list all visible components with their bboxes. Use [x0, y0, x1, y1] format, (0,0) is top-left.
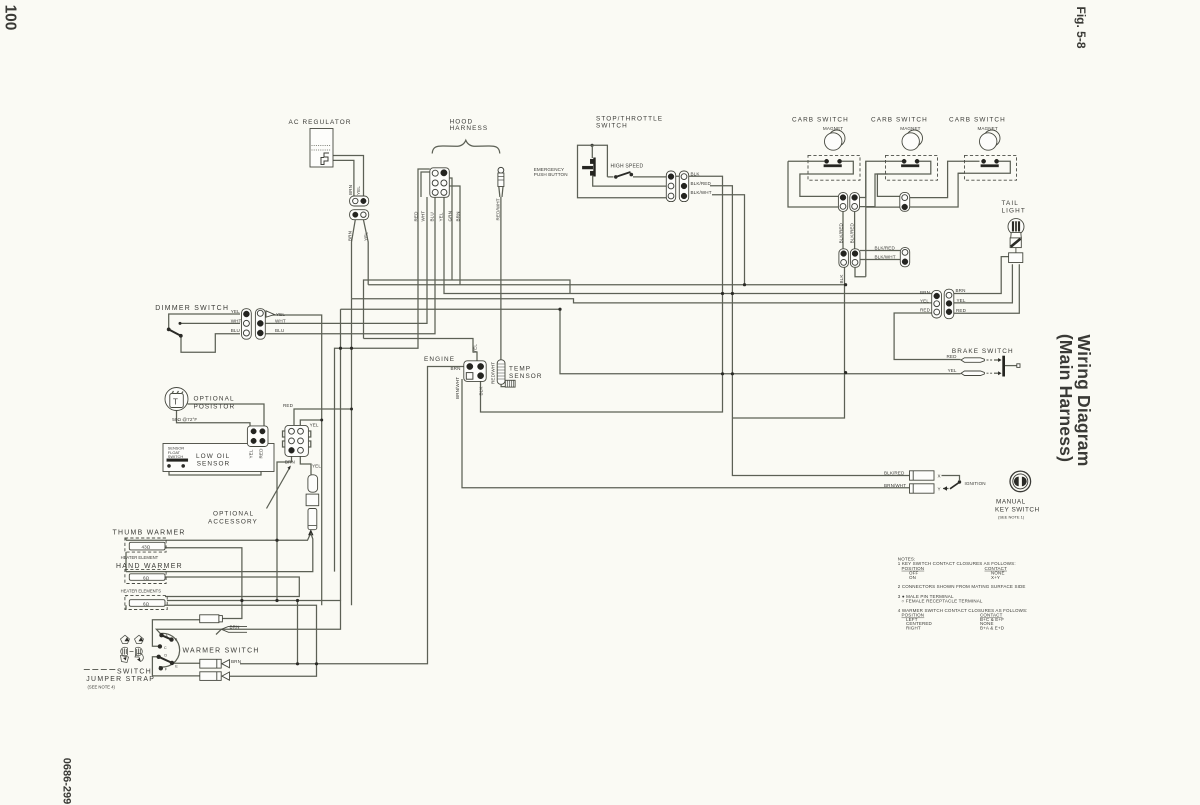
svg-text:THUMB WARMER: THUMB WARMER [113, 530, 186, 537]
stop/throttle switch S1 [534, 116, 667, 198]
wire tail light RED [954, 264, 1020, 313]
svg-text:(SEE NOTE 1): (SEE NOTE 1) [998, 514, 1025, 519]
svg-text:WHT: WHT [275, 318, 286, 323]
svg-text:HAND WARMER: HAND WARMER [116, 563, 183, 570]
svg-text:43Ω: 43Ω [142, 544, 151, 549]
connector accessory 6-pin [283, 425, 311, 456]
svg-text:BRN: BRN [231, 659, 241, 664]
svg-text:STOP/THROTTLE: STOP/THROTTLE [596, 116, 663, 123]
wire carb1 4pin to 2pin BLK/RED [860, 250, 900, 252]
wire bus yC: AC BRN across, down at 560, to brake switch YEL [352, 299, 932, 303]
connector tail 6-pin pair [932, 289, 954, 319]
switch jumper strap note [84, 668, 155, 689]
svg-text:YEL: YEL [364, 232, 369, 241]
wire thumb warmer return to terminal [165, 548, 242, 619]
svg-text:OPTIONAL: OPTIONAL [194, 396, 235, 403]
svg-text:BLK/WHT: BLK/WHT [691, 190, 712, 195]
connector posistor 4-pin [247, 426, 268, 447]
connector hood harness 6-pin [418, 168, 460, 198]
svg-text:YEL: YEL [957, 298, 966, 303]
connector dimmer 3-pin right [255, 309, 265, 340]
wire warmer BRN bus [156, 601, 340, 635]
svg-text:BLK: BLK [478, 386, 483, 396]
svg-text:DIMMER SWITCH: DIMMER SWITCH [155, 305, 229, 312]
svg-text:SWITCH: SWITCH [117, 668, 152, 675]
connector AC pair lower [350, 210, 369, 220]
wire fuse bottom right leg to hand warmer [126, 533, 313, 572]
optional accessory label with arrow [208, 466, 291, 526]
wire AC BRN lead below connector, tees into bus at y299 [352, 220, 356, 299]
svg-text:X: X [938, 473, 941, 478]
svg-text:BRN: BRN [456, 212, 461, 222]
svg-text:BLK: BLK [839, 274, 844, 284]
svg-text:B: B [175, 637, 178, 641]
svg-text:YEL: YEL [312, 463, 321, 468]
svg-text:BLK/RED: BLK/RED [849, 222, 854, 243]
svg-text:6Ω: 6Ω [143, 601, 150, 606]
svg-text:(Main Harness): (Main Harness) [1056, 334, 1076, 462]
connector carb2 2-pin [900, 192, 910, 211]
svg-text:RIGHT: RIGHT [906, 626, 921, 631]
svg-text:MANUAL: MANUAL [996, 499, 1026, 506]
svg-text:6Ω: 6Ω [143, 575, 150, 580]
svg-text:JUMPER STRAP: JUMPER STRAP [86, 676, 155, 683]
svg-text:RED/WHT: RED/WHT [495, 198, 500, 220]
svg-text:BRN: BRN [956, 288, 966, 293]
svg-text:BLU: BLU [430, 212, 435, 221]
wire low oil sensor outer lead [169, 444, 261, 475]
svg-text:WARMER SWITCH: WARMER SWITCH [183, 647, 260, 654]
svg-text:HARNESS: HARNESS [450, 125, 489, 132]
svg-text:BRAKE SWITCH: BRAKE SWITCH [952, 348, 1014, 355]
connector AC pair upper [350, 196, 369, 206]
svg-text:ACCESSORY: ACCESSORY [208, 519, 258, 526]
wire bus L2: AC YEL across to 6-pin connector YEL pin [368, 284, 845, 286]
svg-text:CARB SWITCH: CARB SWITCH [871, 117, 928, 124]
wire hood WHT down joining dimmer WHT [266, 197, 428, 323]
svg-text:BLK/RED: BLK/RED [838, 222, 843, 243]
svg-text:HIGH SPEED: HIGH SPEED [611, 164, 644, 170]
svg-text:0686-299: 0686-299 [61, 758, 73, 805]
svg-text:BLU: BLU [231, 328, 240, 333]
wire carb2 to carb3 top link [910, 161, 980, 197]
wire AC YEL lead below connector to bus y284.7 [363, 220, 368, 285]
wire hood YEL down joining bus L1 [444, 197, 932, 294]
wire engine BLK down right and up to stop switch BLK [481, 176, 723, 412]
wire carb1 to carb2 lower link [860, 174, 888, 207]
wire warmer switch D loop to terminal 2 [152, 657, 199, 676]
wire brake YEL feed from riser across and down [341, 309, 961, 374]
terminal warmer switch D [200, 672, 230, 681]
svg-text:BRN: BRN [230, 625, 240, 630]
svg-text:WHT: WHT [421, 211, 426, 222]
svg-text:LOW OIL: LOW OIL [196, 453, 230, 460]
wire riser x340 from RED junction down to warmer bus [340, 309, 342, 600]
wire terminal to warmer switch contact C [152, 620, 199, 647]
svg-text:HEATER ELEMENTS: HEATER ELEMENTS [121, 589, 162, 594]
wire dimmer switch WHT to connector [180, 322, 240, 324]
svg-text:Fig. 5-8: Fig. 5-8 [1074, 6, 1088, 48]
svg-text:SWITCH: SWITCH [168, 454, 184, 459]
svg-text:RED: RED [414, 211, 419, 222]
svg-text:RED: RED [283, 403, 294, 408]
wire fuse bottom left leg to thumb warmer [126, 533, 311, 540]
warmer switch position icons [121, 635, 144, 662]
svg-text:YEL: YEL [439, 212, 444, 221]
low oil sensor B1 [163, 444, 274, 472]
hand warmer R3 [116, 563, 183, 594]
svg-text:2 CONNECTORS SHOWN FROM MATING: 2 CONNECTORS SHOWN FROM MATING SURFACE S… [898, 584, 1026, 589]
wire carb1 4pin right-bottom to carb2 outer [855, 267, 866, 276]
wire carb1 BLK drop [732, 267, 844, 418]
junction dots [339, 347, 342, 350]
manual key switch S5 [995, 471, 1040, 519]
wire heater elements bottom to warmer switch terminal 2 riser [165, 605, 317, 676]
svg-text:ON: ON [909, 575, 916, 580]
svg-text:(SEE NOTE 4): (SEE NOTE 4) [88, 684, 116, 689]
svg-text:RED: RED [956, 308, 967, 313]
connector dimmer 3-pin left [242, 309, 252, 340]
svg-text:BLK/RED: BLK/RED [691, 181, 712, 186]
wire accessory fuse feed YEL [300, 453, 311, 475]
svg-text:OPTIONAL: OPTIONAL [213, 511, 254, 518]
wire posistor bottom lead [177, 411, 251, 428]
wire accessory BRN down to warmer bus [277, 453, 292, 601]
wire 6-pin RED pin to brake switch RED [894, 313, 961, 360]
wire AC regulator output 2 to connector [333, 160, 354, 196]
wire dimmer switch YEL to connector [169, 314, 240, 329]
svg-text:RED/WHT: RED/WHT [491, 362, 496, 384]
notes block [898, 556, 1028, 630]
svg-text:BLK: BLK [691, 172, 701, 177]
wire carb3 BRN down to 6-pin connector [954, 257, 1009, 294]
connector 2-pin (blk/red blk/wht) [900, 248, 909, 267]
svg-text:YEL: YEL [231, 309, 240, 314]
svg-text:YEL: YEL [276, 312, 285, 317]
wire hand warmer series link to heater elements [165, 577, 299, 597]
svg-text:X+Y: X+Y [991, 575, 1000, 580]
wire dimmer YEL feed down left side [266, 315, 322, 605]
svg-text:YEL: YEL [248, 449, 253, 458]
warmer switch S3 [157, 633, 260, 671]
svg-text:B+A & E+D: B+A & E+D [980, 626, 1005, 631]
wire dimmer switch lower loop BLU [181, 334, 240, 353]
svg-text:BLK/WHT: BLK/WHT [875, 255, 896, 260]
svg-text:T: T [173, 398, 178, 407]
svg-text:D: D [164, 653, 167, 657]
wire carb1 4pin to 2pin BLK/WHT [860, 259, 900, 261]
wire posistor right lead [188, 404, 265, 427]
wire stop switch BLK/RED down to ignition X terminal [710, 186, 910, 476]
wire warmer BRN terminal across and up to engine BRN [240, 367, 464, 664]
AC regulator U1 [289, 119, 352, 167]
svg-text:WHT: WHT [231, 318, 242, 323]
svg-text:TAIL: TAIL [1002, 200, 1019, 207]
svg-text:BRN/WHT: BRN/WHT [884, 483, 906, 488]
svg-text:BLK/RED: BLK/RED [875, 245, 896, 250]
svg-text:Y: Y [938, 486, 941, 491]
svg-text:GRN: GRN [448, 211, 453, 222]
svg-text:POSISTOR: POSISTOR [194, 404, 236, 411]
accessory inline fuse F1 [306, 475, 319, 530]
connector RED/WHT bullet [498, 167, 504, 197]
wire carb1 to carb2 top link [860, 161, 903, 197]
wire stop switch BLK/WHT down across to tail RED riser [712, 195, 745, 285]
key switch terminals [884, 470, 986, 493]
svg-text:AC REGULATOR: AC REGULATOR [289, 119, 352, 126]
wire tail light YEL [954, 264, 1013, 303]
wire hood BRN down joining bus L2 [459, 197, 461, 285]
wire hood BLU down joining dimmer BLU [266, 197, 436, 334]
svg-text:KEY SWITCH: KEY SWITCH [995, 507, 1040, 514]
svg-text:RED: RED [920, 307, 931, 312]
tail light LP1 [1002, 200, 1026, 263]
connector stop/throttle 3-pin pair [666, 171, 688, 202]
connector carb1 4-pin [839, 211, 860, 267]
svg-text:SENSOR: SENSOR [509, 373, 543, 380]
wire bus L1: engine YEL feed up then across to 6-pin connector BRN pin [364, 280, 571, 339]
crimp flag on dimmer YEL out [266, 311, 275, 317]
thumb warmer R2 [113, 530, 186, 572]
wire engine BRN/WHT down and across to key switch Y terminal [462, 379, 910, 488]
connector carb1 2-pin pair [838, 193, 859, 212]
svg-text:HEATER ELEMENT: HEATER ELEMENT [121, 555, 159, 560]
svg-text:BRN/WHT: BRN/WHT [455, 377, 460, 399]
carb switch 1 [788, 117, 860, 208]
engine connector [424, 356, 486, 381]
carb switch 2 [871, 117, 938, 197]
wire carb2 to carb3 lower link [910, 173, 965, 207]
hood harness label and brace [432, 119, 500, 154]
svg-text:100: 100 [1, 5, 18, 31]
wire accessory RED drop from junction at 351.5 [294, 299, 352, 606]
svg-text:YEL: YEL [472, 344, 477, 353]
svg-text:RED: RED [258, 448, 263, 459]
wire bus tie x297.5 [297, 601, 299, 664]
svg-text:BRN: BRN [920, 290, 930, 295]
svg-text:CARB SWITCH: CARB SWITCH [792, 117, 849, 124]
temp sensor RT1 [497, 360, 542, 387]
terminal thumb return [200, 615, 223, 623]
terminal warmer switch E (BRN) [200, 659, 241, 668]
svg-text:○ FEMALE RECEPTACLE TERMINAL: ○ FEMALE RECEPTACLE TERMINAL [902, 598, 983, 603]
svg-text:BLU: BLU [275, 328, 284, 333]
wire hood RED down, left at 348, down to hand warmer area [335, 197, 419, 572]
carb switch 3 [949, 117, 1017, 181]
dimmer switch S2 [155, 305, 229, 338]
brake switch S4 [947, 348, 1021, 377]
svg-text:SENSOR: SENSOR [197, 460, 231, 467]
wire hood GRN down joining bus L1 upper [451, 197, 453, 280]
wire warmer switch E to terminal 1 [173, 662, 200, 664]
svg-text:CARB SWITCH: CARB SWITCH [949, 117, 1006, 124]
svg-text:YEL: YEL [356, 186, 361, 195]
svg-text:BRN: BRN [451, 366, 461, 371]
svg-text:IGNITION: IGNITION [965, 481, 986, 486]
wire engine YEL from bus into engine connector [364, 339, 478, 362]
svg-text:YEL: YEL [920, 298, 929, 303]
svg-text:C: C [164, 646, 167, 650]
svg-text:BLK/RED: BLK/RED [884, 470, 905, 475]
svg-text:SWITCH: SWITCH [596, 123, 628, 130]
svg-text:TEMP: TEMP [509, 366, 531, 373]
wire accessory YEL tie to dimmer YEL vertical [300, 420, 321, 427]
svg-text:LIGHT: LIGHT [1002, 208, 1026, 215]
svg-text:YEL: YEL [310, 423, 319, 428]
svg-text:BRN: BRN [348, 185, 353, 195]
svg-text:50Ω @72°F: 50Ω @72°F [172, 417, 197, 422]
svg-text:BRN: BRN [285, 459, 295, 464]
posistor R1 [165, 388, 235, 422]
svg-text:A: A [165, 634, 168, 638]
heater elements R4 [125, 595, 167, 609]
svg-text:PUSH BUTTON: PUSH BUTTON [534, 172, 568, 177]
wire low oil sensor inner lead [183, 444, 252, 469]
svg-text:BRN: BRN [348, 231, 353, 241]
wire RED/WHT bullet lead down to temp sensor [500, 197, 502, 360]
svg-text:RED: RED [947, 354, 958, 359]
svg-text:YEL: YEL [948, 368, 957, 373]
wire carb2 outer drop [866, 161, 900, 276]
wire AC regulator output 1 to connector [333, 156, 364, 197]
svg-text:ENGINE: ENGINE [424, 356, 455, 363]
terminal BRN open arrow [216, 625, 247, 635]
svg-text:E: E [175, 664, 178, 668]
